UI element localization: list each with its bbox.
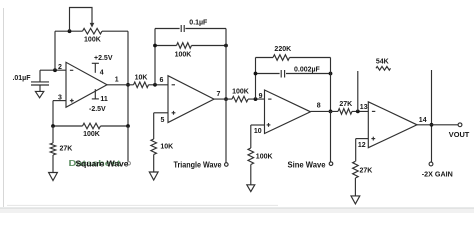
node output pin8 xyxy=(329,110,333,114)
wire triangle out down xyxy=(225,99,227,163)
wire cap line xyxy=(155,28,226,30)
node cap3 right xyxy=(329,72,333,76)
resistor R12 27K bottom xyxy=(353,139,369,196)
node pin6 junction xyxy=(153,83,157,87)
wire fb3 right vertical xyxy=(330,58,332,112)
op-amp U1D plus sign xyxy=(371,137,375,141)
wire output right vertical xyxy=(431,70,433,162)
wire pin2 input xyxy=(40,69,66,71)
wire pin3 input xyxy=(53,100,66,102)
terminal triangle wave xyxy=(225,163,229,167)
svg-text:8: 8 xyxy=(317,103,321,110)
op-amp U1C minus sign xyxy=(268,98,271,100)
wire output pin14 xyxy=(417,124,458,126)
svg-text:54K: 54K xyxy=(376,59,389,66)
svg-text:+2.5V: +2.5V xyxy=(94,55,113,62)
op-amp U1A minus sign xyxy=(70,69,73,71)
wire output vertical xyxy=(127,31,129,126)
resistor R5 100K xyxy=(177,43,192,49)
svg-text:100K: 100K xyxy=(83,131,100,138)
resistor R6 10K bottom xyxy=(151,113,168,172)
node pin13 junction xyxy=(356,110,360,114)
node cap3 left xyxy=(254,72,258,76)
wire cap stub xyxy=(39,70,41,82)
svg-text:27K: 27K xyxy=(339,101,352,108)
op-amp U1B plus sign xyxy=(172,111,176,115)
node pin2 junction xyxy=(53,68,57,72)
wire stage3-4 xyxy=(311,110,369,112)
terminal sine wave xyxy=(329,162,333,166)
node bottom feedback right xyxy=(126,124,130,128)
svg-text:27K: 27K xyxy=(60,145,73,152)
terminal square wave xyxy=(127,162,130,165)
node output pin1 xyxy=(126,83,130,87)
ground (R9) xyxy=(247,185,255,192)
terminal VOUT xyxy=(458,123,462,127)
wire cap3 line xyxy=(256,73,331,75)
svg-text:-2X GAIN: -2X GAIN xyxy=(422,171,453,178)
node bottom feedback left xyxy=(51,124,55,128)
wire pin13 up xyxy=(357,71,359,111)
svg-text:4: 4 xyxy=(100,69,104,76)
resistor R3 27K xyxy=(50,126,56,173)
node output pin14 xyxy=(430,123,434,127)
ground (C1) xyxy=(35,91,43,97)
svg-text:13: 13 xyxy=(360,104,368,111)
node output pin7 xyxy=(224,97,228,101)
svg-text:100K: 100K xyxy=(175,52,192,59)
svg-text:220K: 220K xyxy=(274,46,291,53)
svg-text:.01µF: .01µF xyxy=(12,75,31,82)
resistor R7 100K xyxy=(232,96,248,102)
capacitor C3 0.002uF xyxy=(281,70,284,78)
pot wiper arrow xyxy=(90,23,95,28)
op-amp U1A plus sign xyxy=(70,99,74,103)
resistor R4 10K xyxy=(134,82,149,88)
wire fb resistor line xyxy=(155,45,226,47)
svg-text:100K: 100K xyxy=(256,154,273,161)
wire feedback top right xyxy=(102,30,128,32)
resistor R9 100K bottom xyxy=(248,125,265,185)
svg-text:9: 9 xyxy=(259,93,263,100)
svg-text:Triangle Wave: Triangle Wave xyxy=(174,160,222,169)
resistor R8 220K xyxy=(273,55,290,61)
power +2.5V symbol xyxy=(92,63,99,73)
node pot left terminal xyxy=(68,29,72,33)
wire fb left vertical xyxy=(154,29,156,85)
resistor R11 54K xyxy=(376,66,391,70)
wire 220K line xyxy=(256,57,331,59)
resistor R10 27K xyxy=(338,109,352,115)
op-amp U1A (pins 2,3 in / 1 out) xyxy=(66,62,107,107)
svg-text:VOUT: VOUT xyxy=(449,132,470,139)
wire stage1-2 xyxy=(107,84,168,86)
svg-text:0.1µF: 0.1µF xyxy=(189,19,208,26)
svg-text:1: 1 xyxy=(115,76,119,83)
power -2.5V symbol xyxy=(92,89,99,99)
wire feedback top left xyxy=(55,30,83,32)
wire feedback left vertical xyxy=(54,31,56,70)
svg-text:7: 7 xyxy=(217,91,221,98)
op-amp U1B minus sign xyxy=(172,84,175,86)
svg-text:-2.5V: -2.5V xyxy=(89,106,106,113)
op-amp U1B (pins 6,5 in / 7 out) xyxy=(168,76,214,123)
wire fb right vertical xyxy=(225,29,227,100)
wire stage2-3 xyxy=(214,98,265,100)
svg-text:10: 10 xyxy=(254,128,262,135)
capacitor C1 .01uF xyxy=(31,82,49,92)
op-amp U1D minus sign xyxy=(372,110,375,112)
svg-text:0.002µF: 0.002µF xyxy=(294,66,321,73)
svg-text:27K: 27K xyxy=(360,167,373,174)
wire pin3 down xyxy=(52,101,54,126)
ground (R12) xyxy=(351,196,360,204)
resistor R2 100K bottom xyxy=(83,123,101,129)
svg-text:12: 12 xyxy=(358,142,366,149)
node pin9 junction xyxy=(254,97,258,101)
wire pot loop xyxy=(70,8,93,32)
svg-text:10K: 10K xyxy=(135,74,148,81)
wire sine out down xyxy=(330,111,332,161)
terminal -2X GAIN xyxy=(429,162,433,166)
resistor 100K (pot R1) xyxy=(83,28,103,34)
svg-text:100K: 100K xyxy=(232,89,249,96)
node fb2 left xyxy=(153,44,157,48)
svg-text:Square Wave: Square Wave xyxy=(76,159,130,168)
svg-text:6: 6 xyxy=(160,77,164,84)
svg-text:100K: 100K xyxy=(84,36,101,43)
wire square wave down xyxy=(127,126,129,161)
svg-text:11: 11 xyxy=(100,96,108,103)
svg-text:Sine Wave: Sine Wave xyxy=(288,160,327,169)
wire fb3 left vertical xyxy=(255,58,257,100)
capacitor C2 0.1uF xyxy=(181,25,184,32)
ground (R6) xyxy=(149,172,158,180)
op-amp U1C plus sign xyxy=(267,123,271,127)
node fb2 right xyxy=(224,44,228,48)
svg-text:14: 14 xyxy=(419,117,427,124)
wire bottom feedback xyxy=(53,125,128,127)
svg-text:5: 5 xyxy=(161,117,165,124)
op-amp U1C (pins 9,10 in / 8 out) xyxy=(265,90,311,134)
svg-text:10K: 10K xyxy=(160,143,173,150)
op-amp U1D (pins 13,12 in / 14 out) xyxy=(368,102,417,148)
ground (R3) xyxy=(49,173,58,181)
